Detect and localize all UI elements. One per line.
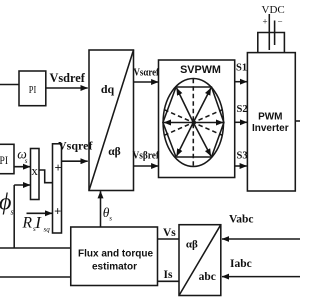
alpha-beta to abc transform block	[179, 225, 221, 296]
wire: flux input arrow to multiplier	[14, 184, 30, 186]
dashed beta axis	[192, 79, 194, 166]
wire: Vsbeta-ref arrow to SVPWM	[134, 165, 159, 167]
svg-text:Is: Is	[164, 269, 173, 281]
wire: phi feedback line	[0, 247, 71, 249]
svg-text:αβ: αβ	[186, 239, 198, 251]
wire: S2 gate arrow	[235, 121, 247, 123]
wire: Vsalpha-ref arrow to SVPWM	[134, 81, 159, 83]
svg-text:Vs: Vs	[163, 227, 176, 239]
svg-text:x: x	[31, 163, 38, 178]
flux and torque estimator block	[71, 227, 158, 286]
svg-text:R: R	[22, 215, 33, 232]
PWM inverter block	[247, 53, 295, 191]
svg-text:PI: PI	[0, 153, 8, 167]
svg-text:SVPWM: SVPWM	[180, 64, 221, 76]
svg-text:Vsqref: Vsqref	[58, 138, 93, 152]
svg-text:S2: S2	[237, 104, 248, 115]
space vector hexagon circle	[163, 79, 223, 167]
svg-text:S1: S1	[236, 63, 247, 74]
svg-text:PWM: PWM	[258, 111, 282, 122]
capacitor VDC plates	[268, 14, 270, 50]
wire: S3 gate arrow	[235, 165, 247, 167]
SVPWM block	[159, 60, 235, 178]
multiplier block X1	[31, 149, 40, 200]
svg-text:Vsdref: Vsdref	[50, 71, 86, 85]
svg-text:s: s	[25, 157, 28, 165]
wire: inverter output	[295, 120, 300, 122]
svg-text:Inverter: Inverter	[252, 123, 289, 134]
svg-text:dq: dq	[101, 82, 115, 96]
svg-text:−: −	[278, 17, 283, 27]
DC link stub	[258, 33, 285, 53]
svg-text:Iabc: Iabc	[230, 258, 252, 270]
hexagon	[163, 87, 224, 157]
wire: Vabc arrow from sensors	[222, 238, 300, 240]
wire: RsIsq arrow into summer	[27, 212, 53, 214]
wire: S1 gate arrow	[235, 81, 247, 83]
svg-text:+: +	[54, 161, 61, 175]
svg-text:PI: PI	[29, 84, 37, 96]
svg-text:estimator: estimator	[92, 261, 137, 272]
svg-text:s: s	[109, 214, 112, 222]
svg-text:S3: S3	[237, 151, 248, 162]
wire: Iabc arrow from sensors	[222, 276, 300, 278]
svg-text:s: s	[11, 208, 14, 217]
svg-text:Vsαref: Vsαref	[134, 68, 160, 79]
svg-text:Vabc: Vabc	[229, 214, 254, 226]
svg-text:+: +	[263, 17, 268, 27]
wire: phi_s feedback vertical	[13, 185, 15, 248]
svg-text:Flux and torque: Flux and torque	[78, 248, 153, 259]
wire: omega_s arrow PI U2 to multiplier	[14, 166, 30, 168]
PI controller U2 (q-axis, clipped at left edge)	[0, 144, 14, 173]
wire: theta_s arrow estimator to dq block	[100, 191, 102, 227]
wire: torque feedback line	[0, 276, 71, 278]
dashed sector lines	[164, 110, 222, 136]
PI controller U1 (d-axis)	[19, 71, 46, 106]
wire: Vs estimator input	[158, 238, 180, 240]
svg-text:Vsβref: Vsβref	[133, 150, 160, 161]
svg-text:abc: abc	[199, 271, 216, 283]
summer S1 block	[53, 144, 62, 233]
wire: Vsqref arrow summer to dq block	[62, 160, 88, 162]
svg-text:αβ: αβ	[108, 146, 120, 158]
wire: Vsdref arrow PI U1 to dq block	[46, 87, 88, 89]
svg-text:+: +	[54, 204, 61, 218]
wire: multiplier output to summer	[39, 170, 53, 183]
svg-text:sq: sq	[44, 225, 51, 233]
wire: input to PI U1	[0, 84, 19, 86]
dq to alpha-beta transform block	[89, 50, 134, 191]
wire: Is estimator input	[158, 280, 180, 282]
svg-text:VDC: VDC	[262, 4, 285, 16]
vector arrows	[164, 122, 194, 124]
